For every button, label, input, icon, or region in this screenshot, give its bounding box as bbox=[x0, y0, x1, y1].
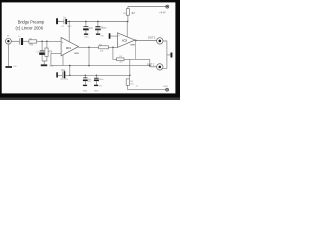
connector X1 input jack bbox=[5, 36, 11, 44]
wire to jack OUT2 bbox=[150, 66, 157, 68]
wire stub to U2 +in bbox=[110, 35, 117, 37]
capacitor C9 100n (bottom rail to ground) bbox=[94, 75, 103, 84]
capacitor C4 1u (input coupling) bbox=[18, 36, 23, 45]
svg-text:0.4V: 0.4V bbox=[163, 86, 168, 88]
junction bus/out2 bbox=[149, 65, 151, 67]
junction fb/out1 bbox=[88, 65, 90, 67]
wire top rail bbox=[58, 21, 128, 23]
wire U1 output bbox=[78, 46, 117, 48]
svg-text:10u: 10u bbox=[61, 69, 66, 72]
wire U1 V- pin down bbox=[62, 55, 64, 66]
capacitor C2 47u (decoupling) bbox=[83, 22, 93, 34]
capacitor C5 (input node to ground) bbox=[36, 41, 44, 61]
wire fb2 vertical bbox=[113, 47, 117, 59]
svg-text:OUT 2: OUT 2 bbox=[147, 63, 155, 66]
wire R6 to 0V terminal bbox=[128, 85, 166, 89]
supply stub B+ bbox=[56, 18, 58, 24]
ground (C9) bbox=[94, 85, 98, 86]
resistor R4 10k (stage link) bbox=[99, 44, 109, 52]
svg-text:Bridge Preamp: Bridge Preamp bbox=[18, 19, 45, 25]
svg-text:NFB: NFB bbox=[74, 53, 79, 55]
frame border bbox=[0, 0, 180, 2]
svg-text:GND: GND bbox=[83, 91, 88, 93]
capacitor C8 (bottom rail to ground) bbox=[83, 75, 92, 84]
stub bar (jack common) bbox=[171, 53, 173, 58]
terminal +9V bbox=[166, 5, 169, 8]
wire sleeve stub bbox=[167, 54, 171, 56]
svg-text:IC2: IC2 bbox=[122, 39, 127, 43]
junction bottom/C8 bbox=[84, 74, 86, 76]
wire U2 output to OUT1 bbox=[135, 39, 157, 41]
svg-text:NFB: NFB bbox=[130, 44, 135, 46]
terminal 0V bbox=[166, 88, 169, 91]
op-amp U2 bbox=[118, 33, 136, 48]
junction rail/C2 bbox=[85, 21, 87, 23]
wire jack sleeves chain bbox=[162, 41, 167, 68]
wire V+ drop to op-amp U1 bbox=[68, 22, 70, 42]
wire bottom rail bbox=[58, 74, 130, 76]
junction bottom/C9 bbox=[96, 74, 98, 76]
svg-text:GND: GND bbox=[94, 91, 99, 93]
svg-text:GND: GND bbox=[84, 36, 89, 38]
svg-text:IC1: IC1 bbox=[66, 46, 71, 50]
svg-text:(c) Lincor 2006: (c) Lincor 2006 bbox=[16, 25, 44, 31]
junction node bias/R3 bbox=[46, 40, 48, 42]
title text bbox=[16, 19, 45, 31]
svg-text:4k7: 4k7 bbox=[131, 12, 136, 15]
resistor R1 47k (series input) bbox=[29, 39, 37, 47]
svg-text:-: - bbox=[62, 50, 63, 54]
junction link/fb2 bbox=[112, 46, 114, 48]
wire up to fb bus bbox=[69, 66, 71, 76]
ground (C8) bbox=[83, 85, 87, 86]
wire top to +9V terminal bbox=[128, 5, 166, 7]
wire feedback bus (long horizontal) bbox=[51, 65, 150, 67]
wire jack sleeve down bbox=[7, 44, 9, 66]
junction rail/R2/V+ IC2 bbox=[127, 21, 129, 23]
junction bottom/R6 bbox=[129, 74, 131, 76]
ground (C2) bbox=[84, 34, 88, 35]
ground (C3) bbox=[96, 34, 100, 35]
wire fb tap down (faint) bbox=[135, 40, 137, 59]
svg-text:47u: 47u bbox=[60, 79, 63, 81]
wire fb node down to bottom rail bbox=[129, 59, 131, 75]
wire C4 to R1 bbox=[23, 40, 29, 42]
ground (input divider) bbox=[41, 64, 47, 66]
junction out1/fb bbox=[88, 46, 90, 48]
resistor R6 2k2 (to 0V terminal) bbox=[126, 75, 134, 85]
resistor R2 4k7 (to +9V) bbox=[123, 6, 136, 21]
svg-text:OUT 1: OUT 1 bbox=[148, 36, 156, 39]
junction bottom/fb bus bbox=[69, 74, 71, 76]
wire into U2 -in bbox=[117, 45, 119, 48]
wire down to OUT2 feed bbox=[149, 59, 151, 67]
supply stub (bottom) bbox=[56, 72, 58, 77]
op-amp U1 bbox=[61, 37, 79, 55]
wire fb2 to out node bbox=[124, 58, 150, 60]
wire fb vertical bbox=[88, 47, 90, 65]
svg-text:2k: 2k bbox=[136, 86, 138, 88]
wire V+ drop to op-amp U2 bbox=[126, 22, 128, 37]
wire R1 to op-amp U1 +in bbox=[37, 40, 61, 42]
connector OUT1 jack bbox=[157, 38, 163, 44]
capacitor C1 1u (series on rail) bbox=[61, 15, 70, 28]
wire U1 feedback left leg bbox=[50, 53, 52, 65]
junction node bias/C5 bbox=[41, 40, 43, 42]
capacitor C3 10u (decoupling) bbox=[95, 22, 105, 34]
resistor R5 4k7 (U2 feedback) bbox=[117, 56, 125, 64]
capacitor C7 10u (series, bottom rail) bbox=[60, 69, 68, 81]
stub bar U2 +in bbox=[109, 33, 111, 39]
junction rail/C3 bbox=[97, 21, 99, 23]
wire U1 -in bbox=[51, 52, 61, 54]
ground (input jack) bbox=[5, 66, 12, 68]
connector OUT2 jack bbox=[157, 64, 163, 70]
svg-text:100n: 100n bbox=[99, 79, 103, 81]
junction rail/V+ IC1 bbox=[68, 21, 70, 23]
junction out2/fb tap bbox=[135, 40, 137, 42]
wire jack to C4 bbox=[11, 40, 19, 42]
svg-text:+9 4V: +9 4V bbox=[159, 11, 166, 14]
resistor R3 47k (input node to ground) bbox=[45, 41, 53, 61]
svg-text:-: - bbox=[119, 42, 120, 46]
wire join C5/R3 bbox=[42, 61, 47, 64]
